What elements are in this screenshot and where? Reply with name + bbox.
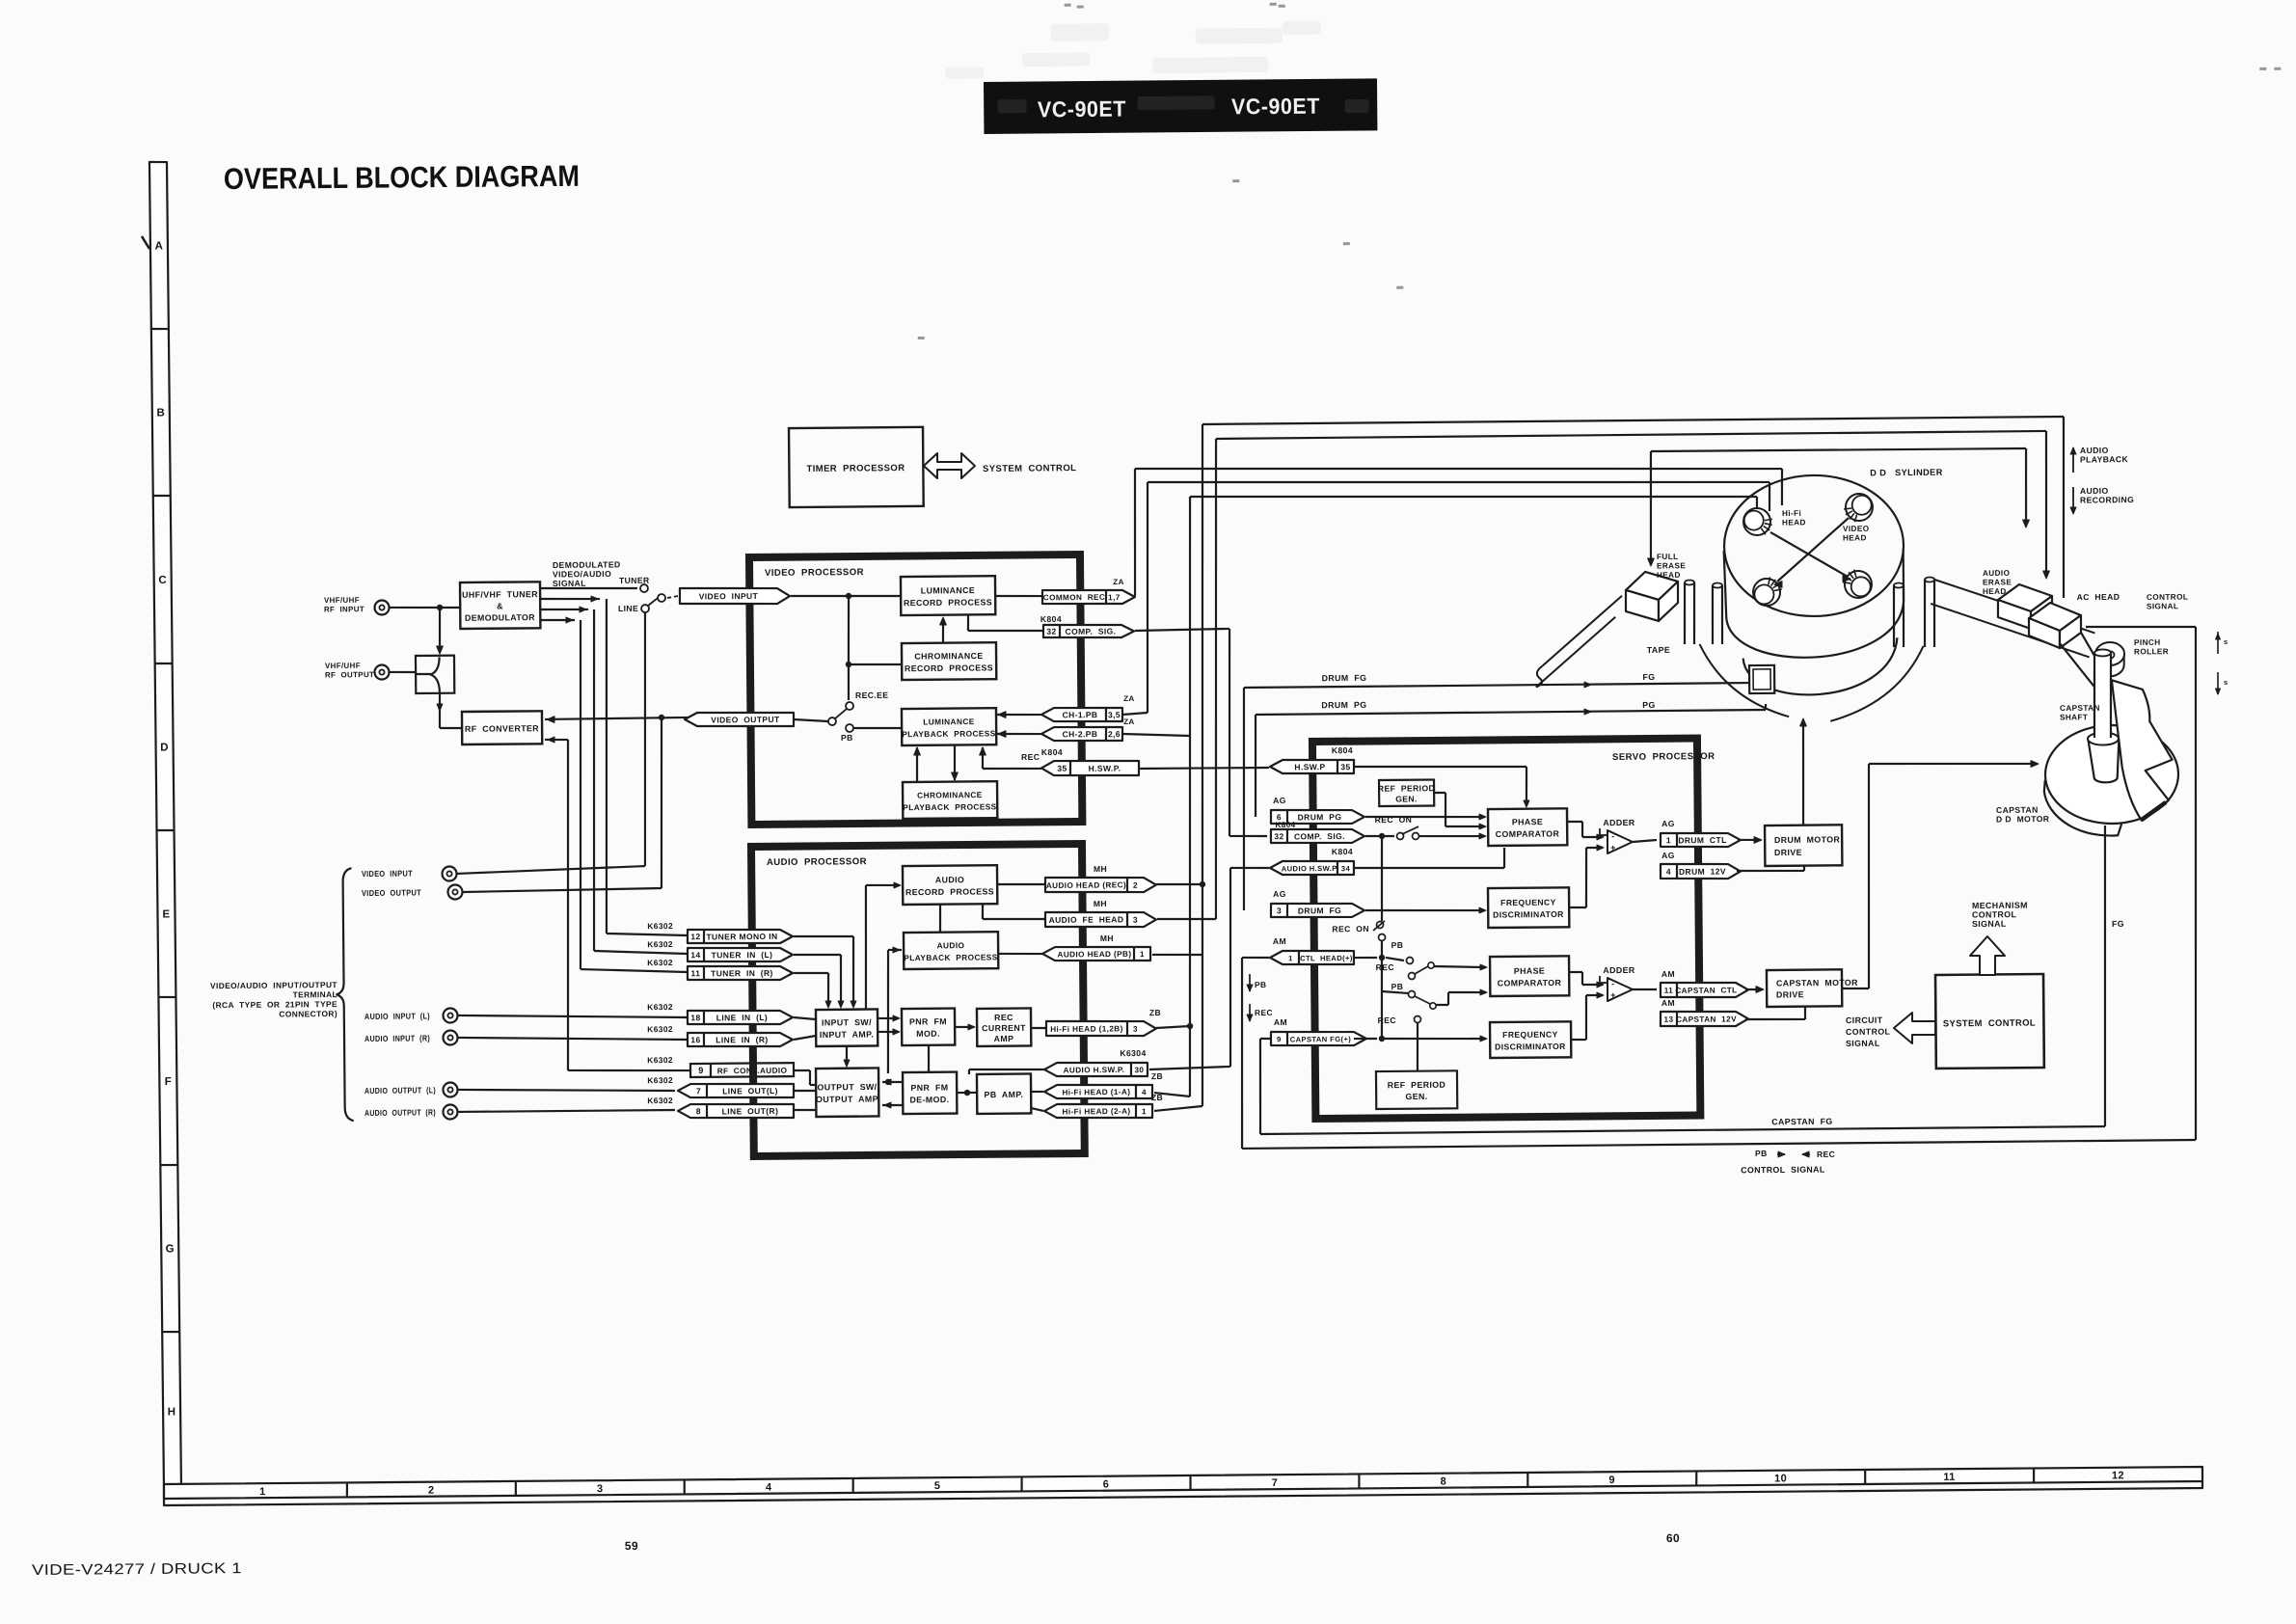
svg-text:VIDE-V24277 / DRUCK 1: VIDE-V24277 / DRUCK 1 (32, 1560, 242, 1579)
svg-text:AUDIO OUTPUT (L): AUDIO OUTPUT (L) (365, 1085, 436, 1096)
svg-text:K6302: K6302 (647, 1002, 673, 1012)
svg-text:SYSTEM CONTROL: SYSTEM CONTROL (983, 463, 1076, 474)
svg-text:1: 1 (1666, 835, 1671, 845)
svg-text:CURRENT: CURRENT (982, 1023, 1026, 1033)
svg-text:ROLLER: ROLLER (2134, 647, 2169, 656)
svg-text:AM: AM (1661, 969, 1675, 979)
svg-text:CHROMINANCE: CHROMINANCE (917, 790, 983, 800)
svg-text:H.SW.P.: H.SW.P. (1089, 764, 1121, 773)
svg-text:AC HEAD: AC HEAD (2077, 592, 2120, 602)
svg-text:&: & (497, 601, 503, 610)
svg-text:PHASE: PHASE (1514, 966, 1545, 976)
svg-text:K6302: K6302 (647, 1096, 673, 1105)
svg-text:TUNER IN (L): TUNER IN (L) (712, 950, 773, 961)
svg-text:UHF/VHF TUNER: UHF/VHF TUNER (462, 589, 538, 600)
svg-text:2: 2 (428, 1485, 435, 1497)
svg-text:-: - (1611, 831, 1614, 841)
svg-text:4: 4 (1666, 867, 1671, 877)
svg-text:SIGNAL: SIGNAL (553, 579, 586, 588)
svg-text:3: 3 (1133, 915, 1138, 925)
svg-text:RF CONV.AUDIO: RF CONV.AUDIO (717, 1067, 788, 1076)
svg-text:MH: MH (1094, 864, 1107, 874)
svg-text:F: F (165, 1076, 173, 1088)
svg-text:COMPARATOR: COMPARATOR (1498, 978, 1562, 988)
svg-text:AUDIO HEAD (PB): AUDIO HEAD (PB) (1057, 950, 1131, 960)
svg-text:AUDIO HEAD (REC): AUDIO HEAD (REC) (1046, 880, 1126, 890)
svg-text:30: 30 (1134, 1066, 1144, 1074)
svg-text:+: + (1610, 843, 1616, 853)
svg-text:RECORD PROCESS: RECORD PROCESS (905, 886, 994, 897)
svg-text:GEN.: GEN. (1395, 794, 1418, 803)
svg-text:34: 34 (1341, 864, 1351, 873)
svg-text:VIDEO OUTPUT: VIDEO OUTPUT (711, 715, 780, 725)
svg-text:12: 12 (2112, 1470, 2124, 1481)
svg-text:HEAD: HEAD (1782, 518, 1806, 527)
svg-text:9: 9 (1608, 1475, 1615, 1486)
svg-text:LINE OUT(L): LINE OUT(L) (722, 1086, 778, 1096)
svg-text:7: 7 (1272, 1477, 1279, 1489)
svg-text:MH: MH (1100, 934, 1114, 943)
svg-text:CAPSTAN CTL: CAPSTAN CTL (1675, 986, 1737, 995)
svg-text:PLAYBACK PROCESS: PLAYBACK PROCESS (904, 952, 997, 962)
svg-text:CONTROL SIGNAL: CONTROL SIGNAL (1741, 1165, 1825, 1176)
svg-text:8: 8 (1441, 1475, 1447, 1487)
svg-text:VC-90ET: VC-90ET (1038, 96, 1126, 122)
svg-text:AUDIO H.SW.P.: AUDIO H.SW.P. (1282, 864, 1339, 874)
svg-text:PLAYBACK: PLAYBACK (2080, 454, 2129, 464)
svg-text:ADDER: ADDER (1603, 818, 1635, 827)
svg-text:LINE OUT(R): LINE OUT(R) (722, 1106, 779, 1117)
svg-text:K804: K804 (1040, 614, 1062, 624)
svg-text:SERVO PROCESSOR: SERVO PROCESSOR (1612, 751, 1715, 763)
svg-text:PB: PB (1391, 940, 1404, 950)
svg-text:DRUM 12V: DRUM 12V (1679, 866, 1726, 876)
svg-text:INPUT SW/: INPUT SW/ (822, 1017, 872, 1027)
svg-text:3: 3 (1133, 1025, 1138, 1034)
svg-text:TUNER MONO IN: TUNER MONO IN (706, 932, 777, 942)
svg-text:ADDER: ADDER (1603, 965, 1635, 975)
svg-text:AM: AM (1274, 1017, 1287, 1027)
svg-text:DRUM FG: DRUM FG (1298, 906, 1341, 915)
svg-text:9: 9 (1277, 1035, 1282, 1043)
svg-text:DRUM FG: DRUM FG (1322, 673, 1367, 683)
svg-text:13: 13 (1663, 1015, 1673, 1024)
svg-text:PB: PB (1255, 980, 1267, 989)
svg-text:AM: AM (1273, 936, 1286, 946)
svg-text:ZB: ZB (1151, 1071, 1163, 1081)
svg-text:s: s (2224, 637, 2228, 646)
svg-text:7: 7 (696, 1086, 701, 1096)
svg-text:K6302: K6302 (647, 1024, 673, 1034)
svg-text:D: D (160, 742, 169, 753)
svg-text:35: 35 (1340, 762, 1350, 771)
svg-text:4: 4 (1142, 1088, 1147, 1096)
svg-text:REC: REC (1376, 962, 1394, 972)
svg-text:H: H (168, 1406, 176, 1418)
svg-text:LUMINANCE: LUMINANCE (921, 585, 975, 595)
svg-text:H.SW.P: H.SW.P (1294, 762, 1325, 771)
svg-text:CONTROL: CONTROL (1846, 1027, 1891, 1037)
svg-text:PNR FM: PNR FM (910, 1083, 948, 1093)
svg-text:G: G (166, 1243, 175, 1255)
svg-text:TIMER PROCESSOR: TIMER PROCESSOR (806, 463, 905, 474)
svg-text:3: 3 (597, 1483, 604, 1495)
svg-text:C: C (158, 575, 167, 586)
svg-text:RF CONVERTER: RF CONVERTER (465, 723, 539, 734)
svg-text:REC ON: REC ON (1332, 924, 1369, 934)
svg-text:E: E (162, 908, 170, 920)
svg-text:FULL: FULL (1657, 553, 1679, 561)
svg-text:PLAYBACK PROCESS: PLAYBACK PROCESS (902, 728, 995, 739)
svg-text:CONTROL: CONTROL (2147, 593, 2188, 602)
svg-text:RF INPUT: RF INPUT (324, 605, 365, 613)
svg-text:GEN.: GEN. (1405, 1092, 1427, 1101)
svg-text:2,6: 2,6 (1108, 729, 1121, 739)
svg-text:HEAD: HEAD (1657, 571, 1681, 580)
svg-text:Hi-Fi HEAD (2-A): Hi-Fi HEAD (2-A) (1062, 1107, 1130, 1117)
svg-text:ERASE: ERASE (1983, 578, 2012, 586)
svg-text:RF OUTPUT: RF OUTPUT (325, 670, 374, 679)
svg-text:18: 18 (690, 1013, 700, 1022)
svg-text:+: + (1610, 990, 1616, 1000)
svg-text:11: 11 (1664, 987, 1674, 995)
svg-text:VHF/UHF: VHF/UHF (325, 662, 361, 670)
svg-text:REC ON: REC ON (1375, 815, 1413, 825)
svg-text:SIGNAL: SIGNAL (1972, 919, 2007, 929)
svg-text:TERMINAL: TERMINAL (293, 989, 338, 999)
svg-text:AG: AG (1273, 889, 1286, 899)
svg-text:s: s (2224, 678, 2228, 687)
svg-text:AUDIO OUTPUT (R): AUDIO OUTPUT (R) (365, 1107, 436, 1118)
svg-text:FG: FG (2112, 919, 2124, 929)
svg-text:A: A (155, 240, 164, 252)
svg-text:CAPSTAN 12V: CAPSTAN 12V (1676, 1015, 1737, 1024)
svg-text:REC: REC (1817, 1150, 1835, 1159)
svg-text:VC-90ET: VC-90ET (1231, 94, 1320, 120)
svg-text:INPUT AMP.: INPUT AMP. (820, 1029, 874, 1039)
svg-text:1: 1 (259, 1486, 266, 1498)
svg-text:3: 3 (1277, 906, 1282, 915)
svg-text:K6302: K6302 (647, 921, 673, 931)
svg-text:CH-2.PB: CH-2.PB (1063, 729, 1098, 739)
svg-text:D D MOTOR: D D MOTOR (1996, 814, 2050, 824)
svg-text:CAPSTAN MOTOR: CAPSTAN MOTOR (1776, 978, 1858, 988)
svg-text:MH: MH (1094, 899, 1107, 908)
svg-text:COMP. SIG.: COMP. SIG. (1294, 831, 1345, 841)
svg-text:DRUM CTL: DRUM CTL (1678, 835, 1726, 845)
svg-text:LINE IN (R): LINE IN (R) (716, 1035, 768, 1044)
svg-text:59: 59 (625, 1539, 638, 1553)
svg-text:PB: PB (1391, 982, 1404, 991)
svg-text:PLAYBACK PROCESS: PLAYBACK PROCESS (903, 801, 996, 812)
svg-text:CAPSTAN FG(+): CAPSTAN FG(+) (1290, 1035, 1352, 1044)
svg-text:11: 11 (690, 968, 700, 978)
svg-text:K6302: K6302 (647, 1075, 673, 1085)
svg-text:CTL HEAD(+): CTL HEAD(+) (1300, 954, 1353, 962)
svg-text:AUDIO PROCESSOR: AUDIO PROCESSOR (767, 856, 867, 868)
svg-text:AUDIO: AUDIO (1983, 569, 2011, 578)
svg-text:TAPE: TAPE (1647, 645, 1671, 655)
svg-text:FG: FG (1642, 672, 1655, 682)
svg-text:10: 10 (1774, 1473, 1787, 1484)
svg-text:HEAD: HEAD (1983, 587, 2007, 596)
svg-text:AUDIO: AUDIO (935, 875, 964, 884)
svg-text:D D SYLINDER: D D SYLINDER (1870, 468, 1943, 478)
svg-text:DRIVE: DRIVE (1774, 848, 1802, 857)
svg-text:DRIVE: DRIVE (1776, 989, 1804, 999)
svg-text:RECORD PROCESS: RECORD PROCESS (904, 597, 992, 608)
svg-text:K6302: K6302 (647, 958, 673, 967)
svg-text:K6302: K6302 (647, 939, 673, 949)
svg-text:AUDIO FE HEAD: AUDIO FE HEAD (1049, 914, 1124, 925)
svg-text:60: 60 (1666, 1531, 1680, 1545)
svg-text:14: 14 (690, 950, 700, 960)
svg-text:DRUM PG: DRUM PG (1298, 812, 1342, 822)
svg-text:PB: PB (841, 733, 853, 743)
svg-text:AUDIO INPUT (L): AUDIO INPUT (L) (365, 1011, 430, 1021)
svg-text:AG: AG (1273, 796, 1286, 805)
svg-text:DRUM PG: DRUM PG (1321, 700, 1366, 710)
svg-text:REC: REC (1255, 1008, 1273, 1017)
svg-text:REF PERIOD: REF PERIOD (1378, 783, 1435, 794)
svg-text:B: B (156, 407, 165, 419)
svg-text:CAPSTAN FG: CAPSTAN FG (1771, 1117, 1832, 1127)
svg-text:3,5: 3,5 (1108, 710, 1121, 719)
svg-text:-: - (1611, 979, 1614, 988)
svg-text:16: 16 (690, 1035, 700, 1044)
svg-text:32: 32 (1274, 831, 1283, 841)
svg-text:PNR FM: PNR FM (909, 1016, 947, 1026)
svg-text:LINE: LINE (618, 604, 638, 613)
svg-text:9: 9 (698, 1066, 704, 1075)
svg-text:PHASE: PHASE (1512, 817, 1543, 826)
svg-text:COMPARATOR: COMPARATOR (1496, 828, 1560, 839)
svg-text:Hi-Fi HEAD (1-A): Hi-Fi HEAD (1-A) (1062, 1088, 1130, 1097)
svg-text:ZA: ZA (1123, 694, 1135, 703)
svg-text:OVERALL BLOCK DIAGRAM: OVERALL BLOCK DIAGRAM (224, 159, 580, 196)
svg-text:LINE IN (L): LINE IN (L) (716, 1013, 768, 1022)
svg-text:REC: REC (1021, 752, 1040, 762)
svg-text:FREQUENCY: FREQUENCY (1500, 898, 1556, 908)
svg-text:32: 32 (1046, 627, 1056, 636)
svg-text:FREQUENCY: FREQUENCY (1502, 1029, 1558, 1040)
svg-text:ZA: ZA (1113, 578, 1124, 586)
svg-text:Hi-Fi HEAD (1,2B): Hi-Fi HEAD (1,2B) (1050, 1024, 1123, 1034)
svg-text:8: 8 (696, 1106, 701, 1116)
svg-text:K804: K804 (1041, 747, 1063, 757)
svg-text:12: 12 (690, 932, 700, 941)
svg-text:35: 35 (1057, 764, 1067, 773)
svg-text:AM: AM (1661, 998, 1675, 1008)
svg-text:VIDEO OUTPUT: VIDEO OUTPUT (362, 887, 421, 898)
svg-text:K6302: K6302 (647, 1055, 673, 1065)
svg-text:AG: AG (1661, 819, 1675, 828)
svg-text:REC: REC (994, 1013, 1013, 1022)
svg-text:K804: K804 (1332, 745, 1353, 755)
svg-text:AUDIO H.SW.P.: AUDIO H.SW.P. (1064, 1066, 1125, 1075)
svg-text:VIDEO PROCESSOR: VIDEO PROCESSOR (765, 567, 864, 579)
svg-text:1: 1 (1288, 954, 1293, 962)
svg-text:LUMINANCE: LUMINANCE (923, 717, 975, 726)
svg-text:AUDIO INPUT (R): AUDIO INPUT (R) (365, 1033, 430, 1043)
svg-text:SIGNAL: SIGNAL (1846, 1039, 1880, 1048)
svg-text:ERASE: ERASE (1657, 561, 1686, 570)
svg-text:AMP: AMP (994, 1034, 1014, 1043)
svg-text:SIGNAL: SIGNAL (2147, 602, 2178, 610)
svg-text:TUNER IN (R): TUNER IN (R) (711, 968, 773, 979)
svg-text:PG: PG (1642, 700, 1656, 710)
svg-text:VIDEO: VIDEO (1843, 525, 1870, 533)
svg-text:REF PERIOD: REF PERIOD (1388, 1080, 1446, 1091)
svg-text:RECORDING: RECORDING (2080, 495, 2134, 504)
svg-text:ZA: ZA (1123, 717, 1135, 726)
svg-text:1,7: 1,7 (1108, 593, 1121, 602)
svg-text:5: 5 (934, 1480, 941, 1492)
svg-text:AUDIO: AUDIO (937, 940, 965, 950)
svg-text:PB: PB (1755, 1149, 1768, 1158)
svg-text:11: 11 (1943, 1472, 1956, 1483)
svg-text:ZB: ZB (1149, 1008, 1161, 1017)
svg-text:DEMODULATOR: DEMODULATOR (465, 612, 535, 623)
svg-text:Hi-Fi: Hi-Fi (1782, 509, 1801, 518)
svg-text:CHROMINANCE: CHROMINANCE (914, 651, 983, 662)
svg-text:CH-1.PB: CH-1.PB (1063, 710, 1098, 719)
svg-text:SYSTEM CONTROL: SYSTEM CONTROL (1943, 1017, 2036, 1029)
svg-text:PB AMP.: PB AMP. (984, 1090, 1023, 1099)
svg-text:OUTPUT AMP: OUTPUT AMP (816, 1094, 878, 1104)
svg-text:DISCRIMINATOR: DISCRIMINATOR (1493, 909, 1564, 920)
svg-text:OUTPUT SW/: OUTPUT SW/ (817, 1082, 877, 1093)
svg-text:K804: K804 (1275, 821, 1295, 829)
svg-text:COMMON REC: COMMON REC (1043, 593, 1106, 603)
svg-text:PINCH: PINCH (2134, 638, 2161, 647)
svg-text:VHF/UHF: VHF/UHF (324, 596, 360, 605)
svg-text:MOD.: MOD. (916, 1029, 940, 1039)
svg-text:REC: REC (1378, 1015, 1396, 1025)
svg-text:VIDEO INPUT: VIDEO INPUT (699, 591, 759, 602)
svg-text:DE-MOD.: DE-MOD. (909, 1095, 949, 1104)
svg-text:SHAFT: SHAFT (2060, 713, 2088, 721)
svg-text:CAPSTAN: CAPSTAN (2060, 704, 2100, 713)
svg-text:VIDEO INPUT: VIDEO INPUT (362, 869, 413, 879)
svg-text:1: 1 (1140, 950, 1145, 959)
svg-text:6: 6 (1103, 1478, 1110, 1490)
svg-text:DISCRIMINATOR: DISCRIMINATOR (1495, 1042, 1566, 1052)
svg-text:DRUM MOTOR: DRUM MOTOR (1774, 834, 1841, 845)
svg-text:COMP. SIG.: COMP. SIG. (1065, 626, 1116, 636)
svg-text:HEAD: HEAD (1843, 533, 1867, 542)
svg-text:2: 2 (1133, 881, 1138, 890)
svg-text:K6304: K6304 (1120, 1048, 1146, 1058)
svg-text:AG: AG (1661, 851, 1675, 860)
svg-text:REC.EE: REC.EE (855, 690, 888, 700)
svg-text:CIRCUIT: CIRCUIT (1846, 1015, 1883, 1025)
svg-text:4: 4 (766, 1482, 772, 1494)
svg-text:1: 1 (1142, 1107, 1147, 1116)
svg-text:RECORD PROCESS: RECORD PROCESS (905, 663, 993, 673)
svg-text:CONNECTOR): CONNECTOR) (279, 1009, 338, 1019)
svg-text:K804: K804 (1332, 847, 1353, 856)
